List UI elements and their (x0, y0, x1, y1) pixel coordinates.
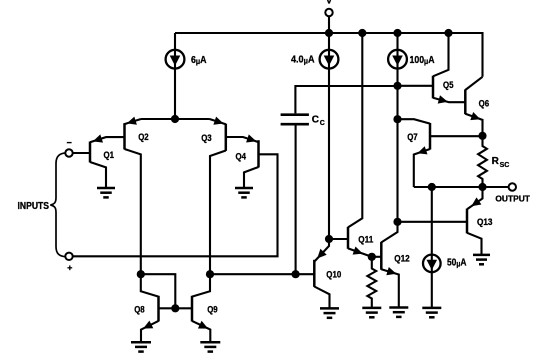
wire Cc top plate to Q5 base node (295, 86, 397, 113)
svg-text:Q2: Q2 (138, 132, 149, 142)
svg-text:50μA: 50μA (447, 257, 467, 268)
capacitor C_C (281, 115, 325, 127)
svg-text:Q11: Q11 (358, 234, 373, 244)
svg-text:Q6: Q6 (479, 99, 490, 109)
transistor Q3 (PNP, emitter to tail node) (201, 117, 226, 275)
junction Q12 collector / Q13 base node (393, 218, 401, 226)
junction Q6 emitter / R_SC / Q7 base (478, 132, 486, 140)
svg-text:OUTPUT: OUTPUT (495, 194, 530, 203)
transistor Q9 (NPN mirror output) (192, 274, 218, 342)
wire V+ top rail with corner down to Q6 collector (175, 33, 483, 77)
junction Q11 emitter / Q12 base / resistor (368, 253, 376, 261)
ground under Q1 (97, 188, 115, 197)
svg-text:C: C (320, 120, 325, 127)
wire output node line (414, 186, 509, 188)
svg-text:R: R (492, 156, 500, 167)
svg-text:4.0μA: 4.0μA (291, 54, 315, 65)
junction output / 50uA source (428, 183, 436, 191)
transistor Q12 (NPN mirror for sink) (381, 222, 409, 308)
svg-text:Q1: Q1 (104, 150, 115, 160)
ground under Q12 (389, 308, 408, 317)
wire mirror diode node to Q8-Q9 bases (141, 274, 176, 308)
svg-text:100μA: 100μA (410, 55, 435, 66)
transistor Q1 (PNP input, base from minus input) (73, 134, 125, 188)
junction top rail at Q5 collector (444, 29, 452, 37)
wire Q8-Q9 base line (159, 307, 193, 309)
svg-text:Q10: Q10 (326, 269, 341, 279)
wire Cc bottom plate to node (295, 125, 297, 274)
input terminal minus (65, 143, 72, 157)
junction Cc bottom at node (292, 270, 300, 278)
svg-text:Q4: Q4 (236, 152, 247, 162)
ground under 50uA source (422, 308, 441, 317)
wire input-pair emitter rail (141, 118, 210, 120)
current source I1 6uA (166, 33, 207, 119)
wire plus input line to Q4 base (73, 154, 278, 256)
svg-text:INPUTS: INPUTS (18, 201, 50, 212)
resistor R1 (Q11 emitter degeneration) (367, 257, 376, 308)
svg-text:Q8: Q8 (134, 305, 145, 315)
ground under Q10 (320, 308, 339, 317)
svg-text:SC: SC (500, 162, 510, 169)
transistor Q7 (NPN current limit sense) (398, 119, 483, 187)
junction Q8-Q9 common base (171, 304, 179, 312)
transistor Q8 (NPN mirror, diode connected) (134, 274, 158, 342)
transistor Q5 (NPN output darlington driver) (398, 33, 466, 104)
resistor R_SC (short-circuit limit) (478, 136, 509, 187)
junction Q3 collector / second stage node (206, 270, 214, 278)
svg-text:Q12: Q12 (394, 254, 410, 264)
junction output / Q13 emitter (478, 183, 486, 191)
transistor Q6 (NPN output source) (465, 77, 489, 136)
transistor Q11 (NPN gain stage) (329, 33, 373, 257)
junction top rail at 100uA source (393, 29, 401, 37)
ground under Q4 (235, 188, 253, 197)
junction Q5 base node (393, 82, 401, 90)
wire second-stage input node to Q10 base (210, 273, 314, 275)
wire down to Q12-Q13 node (396, 119, 398, 222)
current source I3 100uA (388, 33, 434, 86)
svg-text:C: C (312, 115, 319, 126)
junction top rail at V terminal (325, 29, 333, 37)
junction 4uA / Q10 emitter / Q11 base (325, 235, 333, 243)
transistor Q4 (PNP input, base from plus input) (226, 134, 259, 188)
ground under Q9 (200, 342, 220, 351)
svg-text:Q9: Q9 (207, 305, 218, 315)
transistor Q13 (output sink) (467, 187, 493, 255)
svg-text:Q13: Q13 (477, 217, 493, 227)
wire Q11 emitter to Q12 base (372, 256, 382, 258)
ground under Q13 (473, 255, 490, 264)
junction tail node (171, 115, 179, 123)
junction Q2 collector / Q8 collector node (137, 270, 145, 278)
current source I4 50uA (423, 187, 467, 308)
wire 100uA node down to Q7 collector (396, 86, 398, 119)
label INPUTS with brace (18, 153, 67, 257)
ground under resistor R1 (362, 308, 381, 317)
junction top rail at Q11 collector line (358, 29, 366, 37)
svg-text:Q7: Q7 (407, 132, 418, 142)
output terminal (495, 183, 530, 203)
svg-text:Q5: Q5 (443, 80, 454, 90)
svg-text:6μA: 6μA (191, 55, 207, 66)
wire Q13 base lead (398, 221, 468, 223)
input terminal plus (65, 253, 72, 271)
svg-text:Q3: Q3 (201, 133, 212, 143)
transistor Q10 (PNP second stage) (314, 239, 341, 308)
current source I2 4.0uA (291, 33, 338, 239)
power terminal V (positive supply) (325, 0, 333, 33)
svg-text:V: V (326, 0, 333, 7)
junction Q7 collector node (393, 115, 401, 123)
transistor Q2 (PNP, emitter to tail node) (125, 117, 149, 275)
ground under Q8 (131, 342, 151, 351)
